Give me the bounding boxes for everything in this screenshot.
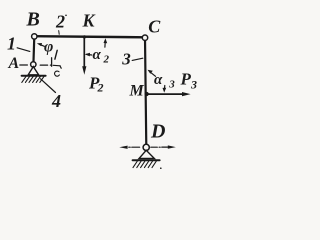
left arrowhead [119,146,127,149]
svg-text:1: 1 [7,34,16,54]
ground bar A [22,75,46,77]
right arrowhead [168,145,176,148]
svg-text:3: 3 [121,50,131,69]
label P3 [180,70,198,92]
leader from 3 to bar [132,58,143,60]
svg-text:M: M [129,83,145,100]
node K junction dot [83,35,86,38]
force P2 arrow at K [82,38,86,75]
wire column C-M-D (bar 3) [145,38,146,148]
pin circle A [31,62,36,67]
svg-text:2: 2 [55,12,65,32]
axis dash-dot line at D with arrows [119,145,176,149]
svg-text:2: 2 [103,54,110,66]
speck right of D hatching [160,167,162,169]
svg-text:3: 3 [168,79,175,91]
svg-text:4: 4 [51,91,61,111]
angle alpha2 up arrow to beam [104,38,108,47]
leader tick under 2 [58,31,61,35]
angle alpha2 left arrow to force line [85,53,92,57]
svg-text:α: α [154,72,163,88]
support triangle D [139,150,154,158]
c mark near A [55,71,60,76]
label P2 [88,74,104,95]
wire beam B-K-C (bar 2) [34,36,146,37]
svg-text:A: A [8,55,20,72]
angle alpha3 down arrow to force line [163,86,167,93]
pin circle C [142,35,147,40]
label phi1 [44,39,53,56]
svg-text:3: 3 [190,78,197,92]
pin circle B [32,34,37,39]
svg-text:K: K [82,11,97,31]
label alpha2 [93,47,110,66]
svg-text:B: B [26,9,40,31]
svg-text:D: D [150,121,165,143]
leader from 4 to support [41,79,56,93]
phi1 tick to axis line [51,58,53,66]
force P3 arrow at M [147,92,191,96]
svg-text:C: C [148,17,161,37]
angle phi1 arrow to bar 1 [37,43,45,46]
svg-text:2: 2 [97,81,104,95]
svg-text:P: P [180,70,192,89]
axis dash-dot line at A [20,65,61,68]
leader from 1 to bar [17,48,30,52]
ground hatching D [133,161,156,168]
wire column B-A (bar 1) [32,37,35,65]
phi1 subscript stroke [55,50,57,59]
node M junction dot [145,92,149,96]
svg-text:φ: φ [44,39,53,56]
svg-text:α: α [93,47,102,63]
angle alpha3 up-left arrow to bar [148,70,156,77]
support triangle A [28,67,38,75]
speck after 2 [65,15,67,17]
ground hatching A [22,76,44,82]
label alpha3 [154,72,175,91]
ground bar D [133,159,160,161]
pin circle D [143,144,149,150]
